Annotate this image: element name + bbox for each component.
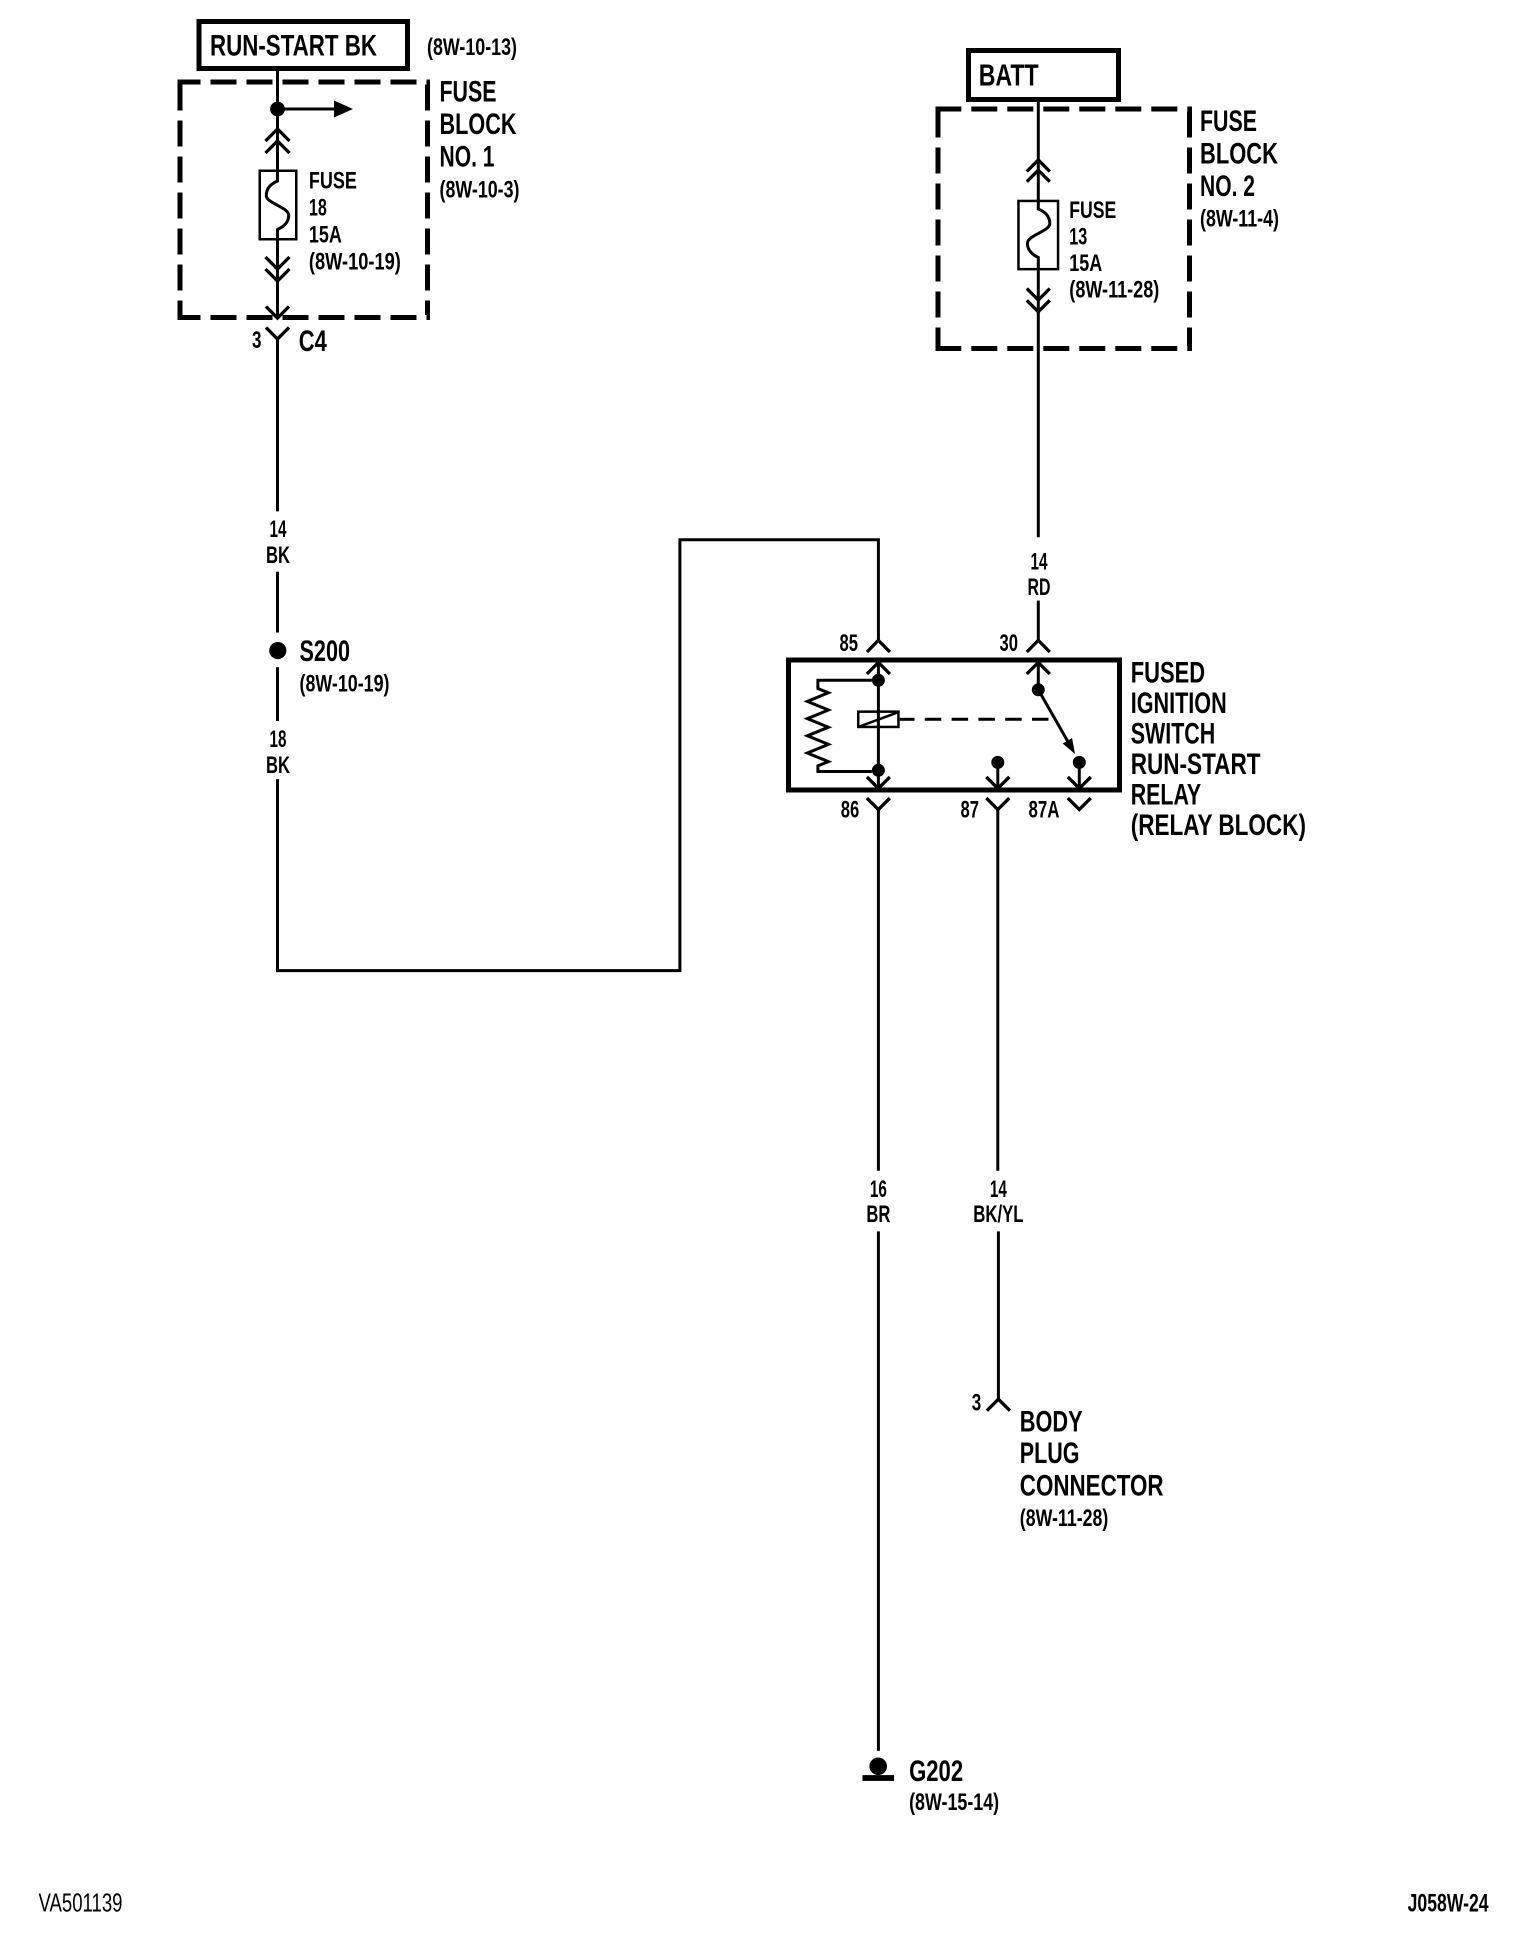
body plug connector half-arrow xyxy=(987,1399,1010,1411)
svg-text:CONNECTOR: CONNECTOR xyxy=(1020,1470,1164,1503)
svg-text:(8W-10-19): (8W-10-19) xyxy=(300,670,390,697)
resistor (relay suppression) xyxy=(807,680,872,771)
connector chevrons (double, down) below fuse 13 xyxy=(1027,289,1050,312)
fuse block no.1 name label xyxy=(440,75,520,203)
wire from fuse block no.2 down xyxy=(1037,270,1040,537)
pin 87A male connector xyxy=(1068,777,1091,789)
svg-text:85: 85 xyxy=(840,630,859,657)
svg-text:BK: BK xyxy=(266,542,290,569)
switch arm with arrowhead xyxy=(1038,690,1075,754)
ground G202 label xyxy=(909,1755,999,1816)
svg-text:18: 18 xyxy=(309,195,327,222)
svg-text:BLOCK: BLOCK xyxy=(1200,137,1278,170)
svg-text:NO. 2: NO. 2 xyxy=(1200,170,1255,203)
splice S200 label xyxy=(300,635,390,697)
wire 87 contact to box edge xyxy=(996,762,999,788)
connector C4 female half xyxy=(266,328,289,340)
pin 87 male connector xyxy=(986,777,1009,789)
svg-text:15A: 15A xyxy=(309,222,342,249)
wire label 14 BK xyxy=(266,516,290,569)
relay box xyxy=(789,660,1120,790)
svg-text:BK: BK xyxy=(266,752,290,779)
svg-text:87: 87 xyxy=(961,797,980,824)
wire from BATT into fuse 13 xyxy=(1037,102,1040,200)
svg-text:RELAY: RELAY xyxy=(1131,779,1202,812)
node switch pivot dot xyxy=(1032,683,1045,696)
node junction dot coil bottom xyxy=(872,764,885,777)
wire label 14 RD xyxy=(1028,549,1051,601)
svg-text:G202: G202 xyxy=(909,1755,963,1788)
fuse 18 15A body xyxy=(260,171,297,241)
connector chevrons (double, up) in fuse block no.1 xyxy=(266,129,290,153)
pin 30 male connector xyxy=(1027,663,1050,675)
wire from RUN-START BK box into fuse 18 xyxy=(276,71,279,170)
svg-text:(RELAY BLOCK): (RELAY BLOCK) xyxy=(1131,809,1306,842)
wire label 14 BK/YL xyxy=(973,1176,1023,1228)
splice S200 dot xyxy=(269,642,286,659)
svg-text:14: 14 xyxy=(1031,549,1048,576)
pin 85 female connector xyxy=(867,640,890,652)
wire pin 86 down xyxy=(877,810,880,1171)
node junction dot coil top xyxy=(872,674,885,687)
fuse 18 value labels xyxy=(309,168,401,276)
fuse 13 15A body xyxy=(1018,200,1058,270)
svg-text:BODY: BODY xyxy=(1020,1405,1083,1438)
svg-text:30: 30 xyxy=(1000,630,1019,657)
fuse 13 value labels xyxy=(1069,197,1159,304)
wire to body plug connector xyxy=(997,1231,1000,1399)
node 87 contact dot xyxy=(991,756,1004,769)
wire to ground G202 xyxy=(877,1231,880,1751)
ground G202 symbol xyxy=(863,1758,895,1781)
wire below S200 xyxy=(276,667,279,721)
wire pin 30 to switch pivot xyxy=(1037,663,1040,690)
wire dashed actuation link xyxy=(915,718,1052,721)
svg-text:J058W-24: J058W-24 xyxy=(1408,1889,1489,1917)
svg-text:S200: S200 xyxy=(300,635,351,668)
wire coil stub xyxy=(900,718,915,721)
wire 87A contact to box edge xyxy=(1078,762,1081,788)
svg-text:(8W-11-28): (8W-11-28) xyxy=(1020,1505,1109,1532)
wire pin 85 to pin 86 inside relay xyxy=(877,663,880,789)
svg-text:(8W-10-13): (8W-10-13) xyxy=(427,34,517,61)
node junction dot in fuse block no.1 xyxy=(270,102,285,117)
svg-text:(8W-11-4): (8W-11-4) xyxy=(1200,206,1279,233)
svg-text:15A: 15A xyxy=(1069,250,1102,277)
connector chevrons (double, up) in fuse block no.2 xyxy=(1027,160,1050,182)
svg-text:RUN-START BK: RUN-START BK xyxy=(210,30,377,63)
node 87A contact dot xyxy=(1073,756,1086,769)
svg-text:3: 3 xyxy=(252,327,262,354)
svg-text:BK/YL: BK/YL xyxy=(973,1201,1023,1228)
svg-text:(8W-10-3): (8W-10-3) xyxy=(440,177,520,204)
svg-text:87A: 87A xyxy=(1029,797,1060,824)
svg-text:(8W-15-14): (8W-15-14) xyxy=(909,1789,999,1816)
wire arrow to other circuit xyxy=(284,101,353,118)
svg-text:RD: RD xyxy=(1028,574,1051,601)
wire pin 87 down xyxy=(996,810,999,1171)
svg-text:BR: BR xyxy=(866,1201,890,1228)
svg-text:(8W-11-28): (8W-11-28) xyxy=(1069,277,1159,304)
svg-text:SWITCH: SWITCH xyxy=(1131,718,1216,751)
pin 87A female connector xyxy=(1068,798,1091,810)
connector C4 male half xyxy=(266,307,289,319)
pin 86 male connector xyxy=(867,777,890,789)
svg-text:18: 18 xyxy=(270,726,287,753)
wire fuse 18 to connector C4 xyxy=(276,241,279,318)
svg-text:(8W-10-19): (8W-10-19) xyxy=(309,249,401,276)
svg-text:FUSE: FUSE xyxy=(1200,105,1257,138)
svg-text:16: 16 xyxy=(870,1176,887,1203)
wire C4 down xyxy=(276,339,279,511)
pin 87 female connector xyxy=(986,798,1009,810)
fuse block no.2 name label xyxy=(1200,105,1279,233)
svg-text:FUSE: FUSE xyxy=(309,168,357,195)
svg-text:PLUG: PLUG xyxy=(1020,1437,1080,1470)
svg-text:RUN-START: RUN-START xyxy=(1131,748,1261,781)
svg-text:IGNITION: IGNITION xyxy=(1131,687,1227,720)
wire label 16 BR xyxy=(866,1176,890,1228)
svg-text:86: 86 xyxy=(841,797,860,824)
relay name label xyxy=(1131,657,1306,843)
pin 86 female connector xyxy=(867,798,890,810)
node RUN-START BK label box xyxy=(199,22,408,69)
svg-text:14: 14 xyxy=(270,516,287,543)
wire label 18 BK xyxy=(266,726,290,779)
svg-text:NO. 1: NO. 1 xyxy=(440,140,495,173)
node BATT label box xyxy=(969,51,1119,100)
svg-text:BLOCK: BLOCK xyxy=(440,108,517,141)
svg-text:C4: C4 xyxy=(299,325,327,358)
relay coil xyxy=(858,712,898,727)
fuse block no.1 dashed box xyxy=(178,82,431,318)
wire to splice S200 xyxy=(276,572,279,633)
fuse block no.2 dashed box xyxy=(936,109,1193,349)
svg-text:FUSE: FUSE xyxy=(1069,197,1116,224)
svg-text:BATT: BATT xyxy=(979,58,1039,93)
svg-text:13: 13 xyxy=(1069,224,1087,251)
wire to relay pin 30 xyxy=(1037,601,1040,641)
svg-text:FUSE: FUSE xyxy=(440,75,497,108)
pin 85 male connector xyxy=(867,663,890,675)
body plug connector label xyxy=(1020,1405,1164,1532)
svg-text:3: 3 xyxy=(972,1390,982,1417)
wire jog from left branch to relay pin 85 xyxy=(278,540,879,971)
svg-text:FUSED: FUSED xyxy=(1131,657,1205,690)
svg-text:14: 14 xyxy=(990,1176,1007,1203)
svg-text:VA501139: VA501139 xyxy=(39,1888,123,1918)
pin 30 female connector xyxy=(1027,640,1050,652)
connector chevrons (double, down) below fuse 18 xyxy=(266,257,290,281)
